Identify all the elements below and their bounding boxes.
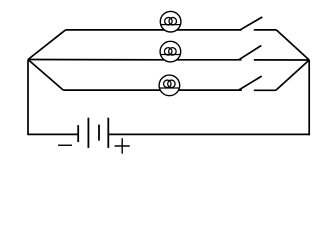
lamp L2 filament left loop (164, 48, 172, 56)
wire lamp 3 to switch 3 (179, 89, 242, 91)
switch S3 lever blade (239, 76, 262, 90)
lamp L2 (160, 41, 181, 62)
switch S1 right contact segment (254, 29, 276, 31)
label plus sign (115, 138, 130, 153)
wire right vertical (bottom rail up to right vertex) (308, 60, 310, 135)
switch S1 (open) (240, 17, 276, 30)
wire left vertical (left vertex down to bottom rail) (27, 60, 29, 135)
lamp L1 base chord (161, 24, 181, 26)
lamp L1 envelope circle (160, 11, 181, 32)
wire lamp 2 to switch 2 (177, 59, 242, 61)
lamp L2 base chord (161, 54, 181, 56)
lamp L1 filament right loop (169, 17, 177, 25)
wire middle branch (left vertex to lamp 2) (28, 59, 164, 61)
wire diagonal switch 3 to right vertex (276, 60, 309, 90)
switch S2 (open) (239, 46, 309, 61)
lamp L2 filament right loop (169, 48, 177, 56)
battery long plate (87, 118, 89, 148)
lamp L3 filament right loop (168, 80, 176, 88)
lamp L3 base chord (160, 87, 180, 89)
lamp L3 envelope circle (159, 75, 180, 96)
wire diagonal left vertex to top branch corner (28, 30, 66, 60)
wire diagonal switch 1 to right vertex (276, 30, 309, 60)
wire diagonal left vertex to bottom branch corner (28, 60, 63, 91)
lamp L3 (159, 75, 180, 96)
switch S1 lever blade (240, 17, 262, 30)
wire bottom rail left segment (to battery negative plate) (27, 133, 78, 135)
battery long plate (positive, right) (107, 118, 109, 148)
battery short plate (negative, left) (77, 125, 79, 142)
battery short plate (inner) (98, 125, 100, 141)
wire bottom rail right segment (battery to right vertical) (108, 133, 310, 135)
wire lamp 1 to switch 1 (177, 29, 242, 31)
label minus sign (58, 144, 72, 146)
wire bottom branch (corner to lamp 3) (63, 89, 160, 91)
wire top branch (corner to lamp 1) (66, 29, 165, 31)
switch S3 (open) (239, 76, 276, 90)
lamp L1 (160, 11, 181, 32)
lamp L1 filament left loop (165, 17, 173, 25)
lamp L2 envelope circle (160, 41, 181, 62)
switch S2 right contact segment (254, 59, 309, 61)
switch S3 right contact segment (254, 89, 276, 91)
battery B1 (58, 118, 130, 154)
lamp L3 filament left loop (164, 80, 172, 88)
switch S2 lever blade (239, 46, 261, 60)
